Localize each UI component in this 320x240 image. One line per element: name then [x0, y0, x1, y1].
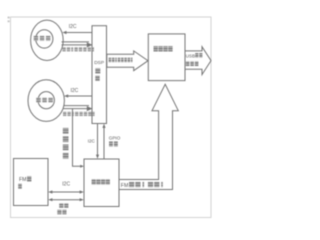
- label 数据 / 申请: [57, 203, 68, 214]
- block arrow pipe: module 1 to module 2 (FM数据 串口), L-shaped with up arrowhead: [119, 84, 178, 189]
- label USB输出 / 到主机: [186, 53, 203, 66]
- wire: I2C arrow DSP to camera 2: [64, 94, 92, 97]
- camera 2 inner circle: [38, 92, 54, 109]
- FM chip box (FM芯片): [14, 159, 49, 206]
- label FM数据（串口） inside pipe: [121, 182, 163, 189]
- svg-text:USB: USB: [186, 54, 195, 59]
- DSP chip label DSP芯片: [94, 60, 104, 81]
- label 曝光信号 vertical: [63, 128, 69, 159]
- svg-text:FM: FM: [121, 183, 129, 189]
- label 并口(视频数据) camera 2: [63, 112, 95, 116]
- svg-text:DSP: DSP: [94, 60, 104, 66]
- wire: GPIO trigger line module 1 up to DSP: [102, 124, 105, 159]
- label 并口(视频数据) camera 1: [62, 47, 94, 51]
- block arrow: USB output to host (USB输出到主机): [185, 47, 211, 75]
- module 1 box (第一模块): [84, 159, 119, 207]
- wire: parallel bus arrow camera 2 to DSP: [64, 106, 93, 112]
- wire: data request double arrow FM chip to module 1: [48, 198, 84, 201]
- svg-text:I2C: I2C: [62, 182, 70, 188]
- camera 2 label 摄像头: [36, 98, 53, 103]
- label 第二模块: [154, 46, 173, 51]
- label 并口(视频数据) inside block arrow: [109, 58, 133, 63]
- svg-text:I2C: I2C: [71, 88, 79, 94]
- wire: exposure signal line (曝光信号) from bus down to module 1: [73, 109, 82, 166]
- label FM芯片: [18, 176, 31, 189]
- svg-text:FM: FM: [19, 177, 27, 183]
- label GPIO 触发: [109, 136, 121, 147]
- page frame border: [11, 17, 212, 218]
- camera 1 inner circle: [36, 30, 53, 48]
- svg-text:I2C: I2C: [88, 138, 96, 143]
- module 2 box (第二模块): [148, 34, 185, 81]
- wire: parallel bus arrow camera 1 to DSP: [62, 42, 93, 48]
- DSP chip box: [92, 26, 107, 124]
- camera 1 outer ellipse (摄像头): [31, 20, 64, 60]
- label 第一模块: [92, 179, 110, 184]
- svg-text:I2C: I2C: [69, 24, 77, 30]
- svg-text:GPIO: GPIO: [109, 136, 121, 141]
- camera 1 label 摄像头: [34, 36, 51, 41]
- camera 2 outer ellipse (摄像头): [28, 80, 64, 122]
- wire: I2C line DSP down to module 1: [96, 124, 99, 159]
- wire: I2C double arrow FM chip to module 1: [48, 190, 84, 193]
- wire: I2C arrow DSP to camera 1: [62, 31, 92, 34]
- block arrow: DSP to module 2 (并口 视频数据): [107, 51, 148, 71]
- mark: specks near top-left corner: [8, 17, 10, 23]
